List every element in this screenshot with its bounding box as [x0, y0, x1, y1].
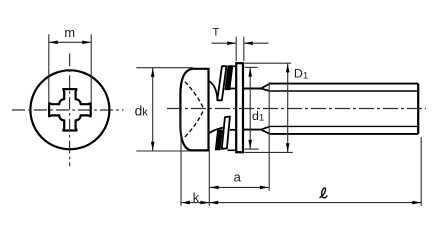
- svg-text:T: T: [212, 27, 219, 39]
- shank lower segment between spring washer and flat washer: [230, 129, 236, 131]
- thread root lower line: [270, 125, 418, 127]
- svg-text:D1: D1: [294, 67, 308, 82]
- T dimension right line: [244, 42, 268, 44]
- T arrow left (points right): [227, 41, 236, 45]
- T extension line left: [235, 37, 237, 61]
- shank upper line (washer to thread runout): [244, 88, 261, 90]
- l arrow right: [412, 201, 421, 205]
- thread runout wedge lower: [261, 126, 270, 133]
- lower edge segment between spring washer and flat washer: [228, 149, 236, 151]
- dk dimension top extension line: [136, 67, 193, 69]
- l dimension label (script ell): [320, 188, 327, 198]
- d1 arrow top: [248, 68, 252, 77]
- hidden recess line upper (dashed): [185, 82, 204, 109]
- D1 bottom extension line: [245, 151, 293, 153]
- spring washer upper section (white): [217, 66, 226, 100]
- a arrow left: [210, 186, 219, 190]
- neck curve below axis (head to spring washer): [209, 128, 223, 134]
- phillips cross recess outline: [49, 89, 91, 130]
- flat washer: [236, 63, 243, 152]
- l right extension line: [420, 137, 422, 206]
- D1 dimension line: [287, 63, 289, 152]
- T extension line right: [243, 37, 245, 61]
- k arrow left: [181, 201, 190, 205]
- thread major diameter lower line: [270, 133, 418, 135]
- vertical centerline of head circle: [69, 53, 71, 166]
- screw axis centerline: [167, 108, 426, 110]
- svg-text:dk: dk: [135, 104, 149, 119]
- upper edge segment between spring washer and flat washer: [231, 65, 236, 67]
- k dimension left extension line: [180, 113, 182, 206]
- svg-text:a: a: [234, 170, 242, 185]
- spring washer upper split end (black): [225, 66, 232, 89]
- T dimension left line: [212, 42, 236, 44]
- d1 top extension line: [245, 66, 258, 68]
- l arrow left: [209, 201, 218, 205]
- spring washer lower section (white): [222, 117, 230, 149]
- svg-text:k: k: [193, 190, 200, 205]
- horizontal centerline of head circle: [12, 109, 124, 111]
- dk dimension bottom extension line: [136, 150, 190, 152]
- head circle (dk outline, front view): [30, 70, 109, 149]
- a dimension right extension line: [268, 82, 270, 191]
- k / l shared right extension line: [208, 152, 210, 206]
- a arrow right: [260, 186, 269, 190]
- D1 arrow bottom: [286, 143, 290, 152]
- m dimension arrow left: [49, 41, 58, 45]
- k dimension line: [181, 202, 209, 204]
- shank lower line (washer to thread runout): [244, 129, 261, 131]
- pan head outline: [180, 69, 208, 151]
- thread runout wedge upper: [261, 84, 270, 91]
- m dimension extension line right: [90, 34, 92, 103]
- svg-text:m: m: [64, 25, 75, 40]
- svg-text:d1: d1: [252, 109, 264, 124]
- l dimension line: [209, 202, 421, 204]
- neck curve above axis (head to spring washer): [209, 81, 218, 100]
- m dimension line: [49, 41, 90, 43]
- dk dimension arrow bottom: [151, 142, 155, 151]
- a dimension line: [210, 186, 269, 188]
- T arrow right (points left): [244, 41, 253, 45]
- D1 top extension line: [245, 62, 292, 64]
- d1 dimension line: [249, 67, 251, 149]
- screw end face: [417, 84, 419, 134]
- D1 arrow top: [286, 64, 290, 73]
- m dimension arrow right: [82, 41, 91, 45]
- d1 arrow bottom: [248, 140, 252, 149]
- hidden recess line lower (dashed): [185, 110, 204, 137]
- m dimension extension line left: [48, 34, 50, 103]
- thread major diameter upper line: [270, 83, 418, 85]
- thread root upper line: [270, 90, 418, 92]
- shank upper segment between spring washer and flat washer: [227, 88, 237, 90]
- spring washer lower split end (black): [216, 130, 222, 149]
- d1 bottom extension line: [245, 148, 259, 150]
- dk dimension arrow top: [151, 68, 155, 77]
- dk dimension line: [152, 68, 154, 151]
- k arrow right: [200, 201, 209, 205]
